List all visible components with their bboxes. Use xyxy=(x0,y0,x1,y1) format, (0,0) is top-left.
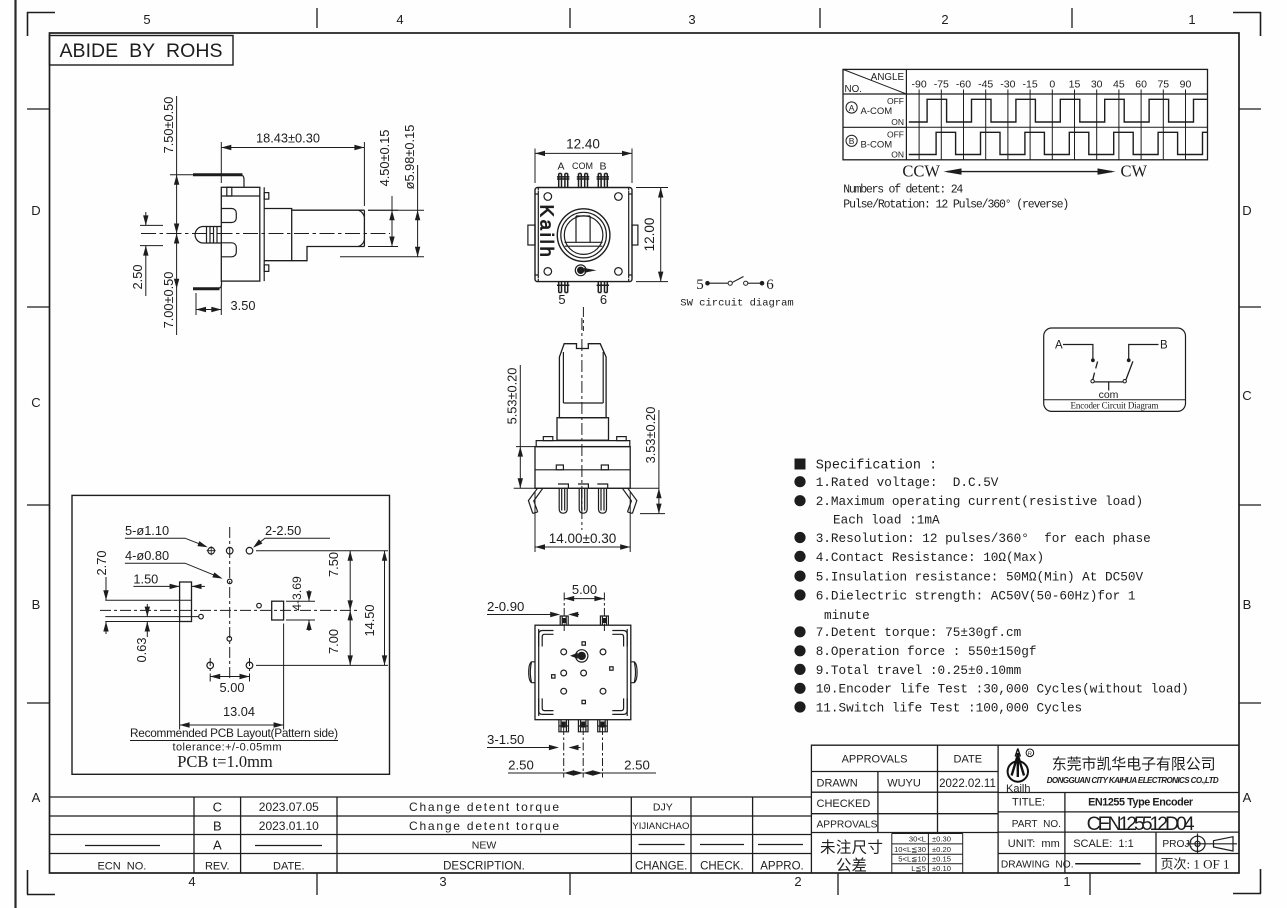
dimension 2-0.90 xyxy=(487,614,579,616)
svg-text:5<L≦10: 5<L≦10 xyxy=(898,855,926,864)
svg-text:-75: -75 xyxy=(934,79,949,91)
svg-text:2.70: 2.70 xyxy=(94,551,109,576)
approvals table lines xyxy=(811,772,998,833)
corner notch marks xyxy=(535,188,632,282)
centerline below xyxy=(582,307,584,331)
svg-text:TITLE:: TITLE: xyxy=(1012,797,1045,809)
left notch upper xyxy=(221,209,236,223)
wire B xyxy=(1129,345,1159,359)
svg-text:-90: -90 xyxy=(912,79,927,91)
node dot 6 xyxy=(760,281,765,286)
svg-text:ON: ON xyxy=(891,150,904,160)
svg-text:CHECK.: CHECK. xyxy=(700,861,743,873)
dimension 14.50 xyxy=(256,551,388,666)
centerline vertical xyxy=(229,527,231,680)
dimension 5.53±0.20 xyxy=(516,365,536,488)
svg-text:Encoder Circuit Diagram: Encoder Circuit Diagram xyxy=(1071,401,1159,411)
dimension 3.50 xyxy=(196,285,221,315)
svg-text:5.00: 5.00 xyxy=(572,582,597,597)
svg-text:NEW: NEW xyxy=(472,840,497,852)
page edge line xyxy=(14,0,16,908)
svg-text:2.Maximum operating current(re: 2.Maximum operating current(resistive lo… xyxy=(816,494,1143,509)
spec item 2 xyxy=(794,495,805,506)
timing table frame xyxy=(843,69,1208,159)
shaft end chamfer xyxy=(359,210,365,246)
dimension 12.40 xyxy=(535,149,632,184)
svg-text:-15: -15 xyxy=(1023,79,1038,91)
svg-text:A: A xyxy=(557,161,564,173)
svg-text:3.50: 3.50 xyxy=(231,298,256,313)
dimension 3-1.50 xyxy=(487,747,581,749)
svg-text:Change detent torque: Change detent torque xyxy=(409,800,559,814)
inner side lines xyxy=(539,629,628,716)
svg-text:2.50: 2.50 xyxy=(624,758,650,773)
wire from 5 xyxy=(708,282,728,284)
rev A dashes xyxy=(85,845,803,846)
dimension 7.00±0.50 xyxy=(176,234,178,336)
svg-text:A: A xyxy=(213,838,222,853)
svg-text:ON: ON xyxy=(891,117,904,127)
wire lines xyxy=(105,600,199,621)
dimension 2.70 xyxy=(105,577,107,634)
node dot 5 xyxy=(705,281,710,286)
hole 1.10 d xyxy=(207,662,214,669)
side tab left xyxy=(528,225,535,245)
svg-text:30: 30 xyxy=(1091,79,1103,91)
cover plate xyxy=(263,187,265,281)
svg-text:Kailh: Kailh xyxy=(1006,783,1030,795)
svg-text:6: 6 xyxy=(600,292,607,307)
hole 0.80 b xyxy=(257,603,262,608)
svg-text:5: 5 xyxy=(558,292,565,307)
svg-text:C: C xyxy=(31,395,40,410)
svg-text:30<L: 30<L xyxy=(909,835,926,844)
svg-text:Kailh: Kailh xyxy=(537,205,558,260)
flange tab right xyxy=(617,437,627,441)
circuit box xyxy=(1044,328,1186,411)
svg-text:B: B xyxy=(599,161,606,173)
shaft slot xyxy=(565,216,603,246)
svg-text:0: 0 xyxy=(1049,79,1055,91)
svg-text:CEN125512D04: CEN125512D04 xyxy=(1087,813,1195,835)
spec item 6 xyxy=(794,589,805,600)
svg-text:PROJ:: PROJ: xyxy=(1162,839,1192,850)
svg-text:6.Dielectric strength: AC50V(5: 6.Dielectric strength: AC50V(50-60Hz)for… xyxy=(816,589,1136,604)
bottom stub B xyxy=(598,720,608,732)
svg-text:PART NO.: PART NO. xyxy=(1012,819,1061,830)
svg-text:DJY: DJY xyxy=(653,802,673,814)
switch contact left xyxy=(728,281,732,285)
shaft outline xyxy=(292,210,365,261)
svg-text:B-COM: B-COM xyxy=(861,139,893,150)
svg-text:6: 6 xyxy=(766,277,774,293)
corner screw TR xyxy=(615,193,623,201)
svg-text:5: 5 xyxy=(696,277,704,293)
hole 0.80 d xyxy=(227,637,232,642)
body outline xyxy=(535,625,631,720)
spec item 3 xyxy=(794,532,805,543)
switch pilot xyxy=(575,265,586,276)
svg-text:EN1255 Type Encoder: EN1255 Type Encoder xyxy=(1088,797,1194,809)
switch contact right xyxy=(744,281,748,285)
bottom pin 6 xyxy=(597,282,609,293)
corner mark bottom-left xyxy=(27,870,55,895)
title block outline xyxy=(811,745,1239,873)
svg-text:2: 2 xyxy=(794,874,801,889)
dimension 5.00 (pcb) xyxy=(210,658,249,682)
body tab left xyxy=(556,465,563,470)
svg-text:R: R xyxy=(1028,751,1032,757)
wire to 6 xyxy=(748,282,762,284)
angle grid lines xyxy=(919,90,1185,160)
svg-text:13.04: 13.04 xyxy=(223,704,255,719)
spec item 11 xyxy=(794,701,805,712)
svg-text:Recommended PCB Layout(Pattern: Recommended PCB Layout(Pattern side) xyxy=(130,726,338,740)
top stub 5 xyxy=(560,616,568,625)
svg-text:10.Encoder life Test :30,000 C: 10.Encoder life Test :30,000 Cycles(with… xyxy=(816,682,1189,697)
centerline side view xyxy=(141,233,390,235)
svg-text:DATE.: DATE. xyxy=(273,861,305,873)
svg-text:NO.: NO. xyxy=(845,84,862,95)
svg-text:5-ø1.10: 5-ø1.10 xyxy=(125,523,169,538)
svg-text:页次: 1 OF 1: 页次: 1 OF 1 xyxy=(1161,857,1230,872)
svg-text:±0.30: ±0.30 xyxy=(932,835,951,844)
body square xyxy=(535,188,632,282)
svg-text:7.50±0.50: 7.50±0.50 xyxy=(161,97,176,154)
row A label xyxy=(846,96,904,127)
svg-text:45: 45 xyxy=(1113,79,1125,91)
svg-text:4-3.69: 4-3.69 xyxy=(290,576,304,611)
svg-text:ECN NO.: ECN NO. xyxy=(97,861,146,873)
svg-text:7.Detent torque: 75±30gf.cm: 7.Detent torque: 75±30gf.cm xyxy=(816,625,1022,640)
pin A xyxy=(558,484,568,513)
switch lever xyxy=(733,277,744,283)
contact circle B xyxy=(1123,380,1126,383)
side tab left xyxy=(529,662,535,683)
svg-text:8.Operation force : 550±150gf: 8.Operation force : 550±150gf xyxy=(816,644,1037,659)
svg-text:5.Insulation resistance: 50MΩ(: 5.Insulation resistance: 50MΩ(Min) At DC… xyxy=(816,570,1144,585)
body tab right xyxy=(601,465,608,470)
svg-text:7.00: 7.00 xyxy=(326,629,341,654)
svg-text:5.53±0.20: 5.53±0.20 xyxy=(505,368,520,425)
zone ticks left xyxy=(27,109,50,703)
row B label xyxy=(846,129,904,159)
svg-text:0.63: 0.63 xyxy=(134,638,149,663)
svg-text:90: 90 xyxy=(1180,79,1192,91)
svg-text:B: B xyxy=(213,819,222,834)
hole 1.10 a xyxy=(208,547,215,554)
svg-text:APPRO.: APPRO. xyxy=(760,861,803,873)
svg-text:1: 1 xyxy=(1188,12,1195,27)
spec item 8 xyxy=(794,645,805,656)
svg-text:ANGLE: ANGLE xyxy=(871,72,905,83)
dimension 5.00 (bottom view) xyxy=(564,593,604,632)
svg-text:4: 4 xyxy=(396,12,403,27)
svg-text:2.50: 2.50 xyxy=(130,265,145,290)
svg-text:ABIDE BY ROHS: ABIDE BY ROHS xyxy=(60,40,223,62)
left notch lower xyxy=(221,243,236,257)
corner mark top-right xyxy=(1233,12,1261,36)
svg-text:CHECKED: CHECKED xyxy=(817,798,871,810)
svg-text:2022.02.11: 2022.02.11 xyxy=(939,778,996,790)
svg-text:±0.10: ±0.10 xyxy=(932,864,951,873)
svg-text:1.Rated voltage: D.C.5V: 1.Rated voltage: D.C.5V xyxy=(816,475,999,490)
centerline xyxy=(581,318,583,530)
svg-text:SW circuit diagram: SW circuit diagram xyxy=(680,298,793,310)
svg-text:4-ø0.80: 4-ø0.80 xyxy=(125,548,169,563)
spec item 10 xyxy=(794,683,805,694)
svg-text:3.53±0.20: 3.53±0.20 xyxy=(643,407,658,464)
body xyxy=(535,447,630,489)
svg-text:2023.07.05: 2023.07.05 xyxy=(259,800,319,814)
svg-text:CW: CW xyxy=(1121,162,1148,181)
body top tab xyxy=(227,187,232,196)
contact circle A xyxy=(1091,380,1094,383)
svg-text:DATE: DATE xyxy=(954,754,983,766)
side tab right xyxy=(631,662,637,683)
flange tab left xyxy=(543,437,553,441)
cover tab upper xyxy=(264,193,269,200)
dimension 2.50 xyxy=(140,212,163,296)
svg-text:A: A xyxy=(1055,340,1063,352)
svg-text:未注尺寸: 未注尺寸 xyxy=(820,839,883,857)
waveform B-COM xyxy=(909,132,1208,154)
hole 1.10 e xyxy=(246,662,253,669)
corner mark top-left xyxy=(27,12,55,36)
svg-text:DONGGUAN CITY KAIHUA ELECTRONI: DONGGUAN CITY KAIHUA ELECTRONICS CO.,LTD xyxy=(1047,776,1219,785)
hole 0.80 a xyxy=(227,579,232,584)
svg-text:COM: COM xyxy=(572,161,593,171)
corner screw TL xyxy=(544,193,552,201)
svg-text:2: 2 xyxy=(941,12,948,27)
bottom pin 5 xyxy=(557,282,569,293)
svg-text:1.50: 1.50 xyxy=(133,572,158,587)
svg-text:WUYU: WUYU xyxy=(887,778,921,790)
dimension 4.50±0.15 xyxy=(368,196,398,247)
svg-text:APPROVALS: APPROVALS xyxy=(842,754,908,766)
waveform A-COM xyxy=(909,99,1208,122)
corner bracket TL xyxy=(539,631,554,647)
leg left xyxy=(528,488,542,513)
svg-text:B: B xyxy=(32,597,41,612)
svg-text:18.43±0.30: 18.43±0.30 xyxy=(256,131,320,146)
flange xyxy=(536,441,630,447)
svg-text:REV.: REV. xyxy=(205,861,230,873)
svg-text:11.Switch life Test :100,000 C: 11.Switch life Test :100,000 Cycles xyxy=(816,700,1082,715)
knob inner verticals xyxy=(563,352,603,403)
svg-text:A: A xyxy=(849,103,855,113)
inner holes xyxy=(561,649,567,655)
bottom stub com xyxy=(578,720,588,732)
svg-text:2.50: 2.50 xyxy=(508,758,534,773)
top flange thick xyxy=(193,173,243,176)
com bar xyxy=(1094,382,1123,391)
wire A xyxy=(1063,345,1093,359)
zone ticks bottom xyxy=(317,873,1090,895)
shaft tip semicircle xyxy=(195,227,202,244)
svg-text:±0.20: ±0.20 xyxy=(932,845,951,854)
svg-text:4: 4 xyxy=(188,874,195,889)
svg-text:7.50: 7.50 xyxy=(326,552,341,577)
bracket body xyxy=(221,187,259,281)
label 4-Ø0.80 xyxy=(125,563,220,577)
svg-text:10<L≦30: 10<L≦30 xyxy=(894,845,926,854)
side tab right xyxy=(632,225,638,245)
svg-text:L≦5: L≦5 xyxy=(911,864,926,873)
pcb box xyxy=(72,495,390,774)
svg-text:Specification :: Specification : xyxy=(816,459,938,474)
hole 1.10 c xyxy=(246,547,253,554)
svg-text:B: B xyxy=(849,136,855,146)
dimension 1.50 xyxy=(133,585,205,587)
spec item 7 xyxy=(794,626,805,637)
cover tab lower xyxy=(264,265,269,272)
svg-text:14.50: 14.50 xyxy=(362,604,377,636)
svg-text:14.00±0.30: 14.00±0.30 xyxy=(549,531,616,546)
bushing xyxy=(557,418,609,441)
terminal B xyxy=(597,174,609,188)
svg-text:A: A xyxy=(32,790,41,805)
spec header bullet xyxy=(795,459,806,470)
dimension 0.63 xyxy=(146,604,148,637)
svg-text:D: D xyxy=(31,203,40,218)
svg-text:3-1.50: 3-1.50 xyxy=(487,732,524,747)
svg-text:5.00: 5.00 xyxy=(220,680,245,695)
terminal A xyxy=(557,174,569,188)
svg-text:A: A xyxy=(1243,790,1252,805)
angle scale labels xyxy=(912,79,1192,91)
node dot B xyxy=(1127,358,1131,362)
dimension 7.50±0.50 xyxy=(170,96,196,234)
svg-text:ø5.98±0.15: ø5.98±0.15 xyxy=(402,125,417,190)
svg-text:Change detent torque: Change detent torque xyxy=(409,819,559,833)
dimension 4-3.69 xyxy=(286,590,315,631)
dimension 13.04 xyxy=(180,622,284,730)
svg-text:3.Resolution: 12 pulses/360°: 3.Resolution: 12 pulses/360° for each ph… xyxy=(816,531,1151,546)
svg-text:B: B xyxy=(1160,340,1168,352)
right section rows xyxy=(998,793,1239,854)
dimension 12.00 xyxy=(636,188,668,282)
svg-text:APPROVALS: APPROVALS xyxy=(817,820,878,831)
hole 0.80 c xyxy=(199,614,204,619)
svg-text:Each load :1mA: Each load :1mA xyxy=(833,513,940,528)
svg-text:15: 15 xyxy=(1069,79,1081,91)
body inner line xyxy=(535,469,630,471)
svg-text:OFF: OFF xyxy=(887,129,904,139)
svg-text:Pulse/Rotation: 12 Pulse/360°: Pulse/Rotation: 12 Pulse/360° (reverse) xyxy=(843,199,1069,212)
svg-text:东莞市凯华电子有限公司: 东莞市凯华电子有限公司 xyxy=(1052,756,1216,773)
svg-text:Numbers of detent: 24: Numbers of detent: 24 xyxy=(843,184,963,197)
zone ticks top xyxy=(317,8,1072,28)
switch arm A xyxy=(1093,362,1098,380)
svg-text:com: com xyxy=(1099,389,1119,401)
svg-text:5: 5 xyxy=(143,12,150,27)
dimension 7.00 xyxy=(349,610,351,665)
zone ticks right xyxy=(1239,109,1261,703)
svg-text:3: 3 xyxy=(439,874,446,889)
svg-text:4.Contact Resistance: 10Ω(Max): 4.Contact Resistance: 10Ω(Max) xyxy=(816,550,1044,565)
dimension 18.43±0.30 xyxy=(221,142,364,206)
centerline horizontal xyxy=(100,609,360,611)
body bottom line extended xyxy=(514,487,659,489)
dimension 3.53±0.20 xyxy=(640,410,665,514)
svg-text:4.50±0.15: 4.50±0.15 xyxy=(377,130,392,187)
svg-text:60: 60 xyxy=(1135,79,1147,91)
leg right xyxy=(622,488,636,513)
switch arm B xyxy=(1126,361,1133,379)
corner screw BR xyxy=(615,268,623,276)
bottom stub A xyxy=(559,720,569,732)
hole 1.10 b xyxy=(226,547,233,554)
label 2-2.50 xyxy=(256,538,330,545)
terminal COM xyxy=(577,174,589,188)
projection symbol xyxy=(1187,834,1238,855)
bushing xyxy=(264,209,292,261)
svg-text:12.40: 12.40 xyxy=(566,137,600,152)
svg-text:±0.15: ±0.15 xyxy=(932,855,951,864)
pin com xyxy=(578,484,588,513)
svg-text:OFF: OFF xyxy=(887,96,904,106)
svg-text:CHANGE.: CHANGE. xyxy=(635,861,687,873)
dimension 14.00±0.30 xyxy=(535,492,630,552)
svg-text:公差: 公差 xyxy=(836,857,867,875)
svg-text:C: C xyxy=(213,800,222,815)
svg-text:SCALE: 1:1: SCALE: 1:1 xyxy=(1073,838,1134,850)
svg-text:7.00±0.50: 7.00±0.50 xyxy=(161,272,176,329)
svg-text:PCB t=1.0mm: PCB t=1.0mm xyxy=(177,752,273,771)
dimension 7.50 xyxy=(256,551,388,611)
corner bracket BR xyxy=(612,698,627,714)
inner squares xyxy=(582,642,585,645)
svg-text:-60: -60 xyxy=(956,79,971,91)
center rotor mark xyxy=(576,650,588,662)
node dot A xyxy=(1091,358,1095,362)
Kailh logo mark xyxy=(1008,749,1034,782)
body inner top line xyxy=(221,195,259,197)
svg-text:75: 75 xyxy=(1157,79,1169,91)
svg-text:DESCRIPTION.: DESCRIPTION. xyxy=(443,861,525,873)
svg-text:YIJIANCHAO: YIJIANCHAO xyxy=(632,821,689,832)
pad right xyxy=(272,601,284,620)
knurl lines xyxy=(207,227,218,244)
svg-text:D: D xyxy=(1242,203,1251,218)
label 5-Ø1.10 xyxy=(125,538,205,546)
top stub 6 xyxy=(600,616,608,625)
svg-text:DRAWN: DRAWN xyxy=(817,778,858,790)
svg-text:CCW: CCW xyxy=(902,162,940,181)
svg-text:12.00: 12.00 xyxy=(642,218,657,252)
svg-text:DRAWING NO.: DRAWING NO. xyxy=(1001,860,1074,871)
svg-text:-45: -45 xyxy=(978,79,993,91)
svg-text:2023.01.10: 2023.01.10 xyxy=(259,819,319,833)
svg-text:UNIT: mm: UNIT: mm xyxy=(1008,838,1060,850)
svg-text:-30: -30 xyxy=(1000,79,1015,91)
knob outline xyxy=(559,344,606,418)
svg-text:A-COM: A-COM xyxy=(861,106,893,117)
svg-text:B: B xyxy=(1243,597,1252,612)
spec item 1 xyxy=(794,476,805,487)
corner mark bottom-right xyxy=(1233,869,1261,894)
svg-text:3: 3 xyxy=(688,12,695,27)
corner bracket BL xyxy=(539,698,554,714)
tolerance mini table xyxy=(892,834,963,874)
rotor rings xyxy=(557,209,610,262)
connector pad left xyxy=(180,582,192,622)
svg-text:C: C xyxy=(1242,388,1251,403)
corner screw BL xyxy=(544,268,552,276)
cover inner lines xyxy=(538,191,628,278)
shaft tip lines xyxy=(203,227,222,244)
